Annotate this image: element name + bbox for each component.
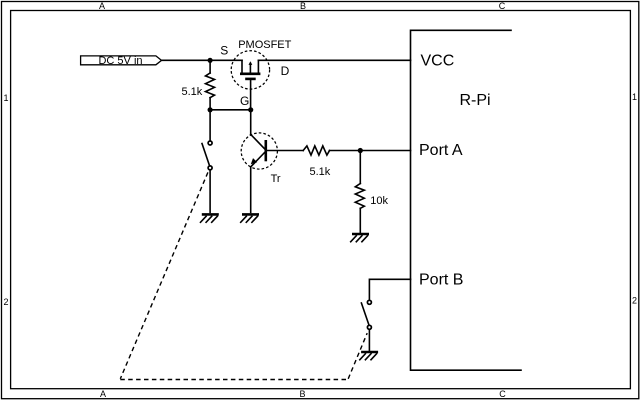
wire: node S to PMOSFET source: [210, 59, 242, 61]
wire: SW1 to ground: [209, 170, 211, 212]
mechanical linkage dashed line (SW1 side): [120, 172, 208, 378]
ground (SW1): [201, 214, 219, 222]
wire: SW2 to ground: [368, 330, 370, 351]
svg-text:DC 5V in: DC 5V in: [98, 55, 142, 67]
connector J1 DC 5V in: [81, 55, 162, 67]
svg-text:C: C: [499, 1, 506, 11]
svg-text:1: 1: [632, 92, 637, 102]
resistor R2 5.1k (horizontal): [303, 146, 329, 155]
svg-text:1: 1: [3, 93, 8, 103]
svg-text:S: S: [220, 44, 228, 58]
wire: node G horizontal: [210, 109, 251, 111]
wire: transistor emitter to ground: [250, 167, 252, 213]
mechanical linkage dashed line (bottom horizontal): [120, 379, 348, 381]
svg-text:5.1k: 5.1k: [310, 166, 331, 178]
svg-text:B: B: [299, 389, 305, 399]
switch SW2: [361, 300, 371, 329]
ground (R3): [351, 234, 369, 242]
svg-text:D: D: [281, 64, 290, 78]
switch SW1: [202, 141, 212, 170]
svg-text:Port A: Port A: [419, 142, 463, 159]
svg-text:A: A: [99, 1, 105, 11]
svg-text:R-Pi: R-Pi: [460, 92, 491, 109]
svg-text:VCC: VCC: [421, 53, 455, 70]
svg-text:A: A: [100, 389, 106, 399]
svg-text:B: B: [300, 1, 306, 11]
wire: R2 to Port A: [330, 150, 411, 152]
svg-text:Port B: Port B: [419, 272, 463, 289]
wire: connector tip to node S: [162, 59, 211, 61]
svg-text:G: G: [240, 94, 249, 108]
wire: node G to switch SW1: [209, 110, 211, 141]
R-Pi box: [411, 30, 522, 370]
wire: PMOSFET drain to R-Pi VCC: [258, 59, 410, 61]
node A junction dot: [358, 148, 363, 153]
resistor R3 10k (vertical): [355, 151, 364, 233]
wire: node G down to transistor collector: [250, 110, 252, 135]
resistor R1 5.1k (vertical): [206, 60, 215, 110]
mechanical linkage dashed line (SW2 side): [348, 333, 367, 379]
svg-text:Tr: Tr: [271, 173, 281, 185]
junction dot right of node G: [248, 107, 253, 112]
wire: Port B to switch SW2: [369, 279, 410, 300]
svg-text:C: C: [499, 389, 506, 399]
ground (SW2): [360, 352, 378, 360]
svg-text:PMOSFET: PMOSFET: [238, 39, 291, 51]
junction dot left of node G: [208, 107, 213, 112]
svg-text:2: 2: [3, 297, 8, 307]
ground (emitter): [241, 214, 259, 222]
svg-text:10k: 10k: [370, 195, 388, 207]
transistor Q2 (Tr, NPN): [241, 133, 303, 169]
PMOSFET Q1: [231, 51, 269, 110]
svg-text:2: 2: [632, 296, 637, 306]
svg-text:5.1k: 5.1k: [182, 86, 203, 98]
node S junction dot: [208, 58, 213, 63]
